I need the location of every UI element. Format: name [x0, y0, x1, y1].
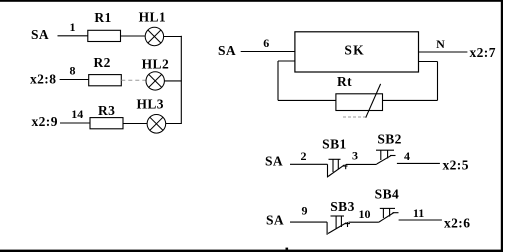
- wire Rt to right vertical: [383, 99, 438, 101]
- border bottom: [0, 250, 503, 252]
- svg-text:10: 10: [359, 207, 371, 221]
- svg-text:SK: SK: [344, 43, 364, 58]
- svg-text:HL2: HL2: [142, 57, 169, 72]
- lamp HL3: [147, 115, 166, 134]
- lamp HL2: [146, 72, 164, 90]
- svg-text:SA: SA: [218, 43, 236, 58]
- svg-text:SB1: SB1: [322, 137, 346, 152]
- svg-text:SB2: SB2: [377, 132, 401, 147]
- svg-text:x2:7: x2:7: [470, 45, 496, 60]
- svg-text:1: 1: [70, 20, 76, 34]
- svg-text:N: N: [436, 37, 445, 51]
- wire stub left of Rt branch: [278, 60, 295, 62]
- wire left vertical of Rt branch: [277, 61, 279, 100]
- svg-text:SA: SA: [266, 213, 284, 228]
- wire R3 to HL3: [123, 123, 147, 125]
- svg-text:R2: R2: [94, 55, 111, 70]
- wire HL2 to bus: [164, 80, 181, 82]
- svg-text:R1: R1: [94, 10, 111, 25]
- svg-text:x2:6: x2:6: [444, 215, 470, 230]
- resistor R2: [89, 75, 122, 86]
- wire stub right of Rt branch: [419, 61, 438, 63]
- svg-text:2: 2: [301, 149, 307, 163]
- svg-text:9: 9: [302, 204, 308, 218]
- wire x2:8 to R2: [60, 79, 89, 81]
- wire R2 to HL2 (dashed): [121, 79, 146, 81]
- wire SA to R1: [58, 35, 88, 37]
- svg-text:x2:9: x2:9: [32, 114, 58, 129]
- pushbutton SB4: [379, 208, 399, 222]
- svg-text:x2:5: x2:5: [443, 157, 469, 172]
- wire right vertical of Rt branch: [437, 62, 439, 101]
- wire HL1 to bus: [164, 36, 182, 38]
- wire SA to SK: [241, 51, 295, 53]
- pushbutton SB2: [376, 150, 396, 164]
- resistor R1: [88, 30, 121, 41]
- svg-text:SA: SA: [265, 153, 283, 168]
- wire SA to SB3: [290, 221, 327, 223]
- pushbutton SB3: [327, 216, 350, 235]
- svg-text:14: 14: [71, 107, 83, 121]
- svg-text:HL1: HL1: [139, 10, 166, 25]
- wire SB2 to x2:5: [397, 162, 440, 164]
- border right: [501, 0, 503, 252]
- wire SB4 to x2:6: [399, 219, 442, 221]
- Rt diagonal stroke: [366, 84, 381, 118]
- wire SA to SB1: [290, 163, 328, 165]
- bus (right vertical): [180, 36, 182, 124]
- lamp HL1: [145, 27, 163, 45]
- svg-text:3: 3: [352, 148, 358, 162]
- svg-text:11: 11: [413, 206, 424, 220]
- wire SB3 to SB4: [349, 221, 379, 223]
- svg-text:x2:8: x2:8: [30, 71, 56, 86]
- svg-text:SA: SA: [31, 27, 49, 42]
- resistor R3: [90, 118, 123, 129]
- box SK: [295, 32, 419, 72]
- junction tick on bottom border: [286, 248, 289, 250]
- svg-text:R3: R3: [98, 103, 115, 118]
- svg-text:HL3: HL3: [136, 97, 163, 112]
- svg-text:SB4: SB4: [375, 187, 399, 202]
- svg-text:8: 8: [70, 64, 76, 78]
- resistor Rt: [336, 94, 383, 111]
- pushbutton SB1: [328, 159, 348, 177]
- wire SK to x2:7: [419, 51, 468, 53]
- Rt foot (dashed): [343, 116, 366, 118]
- wire SB1 to SB2: [346, 163, 377, 165]
- svg-text:4: 4: [404, 149, 410, 163]
- svg-text:Rt: Rt: [337, 74, 352, 89]
- wire HL3 to bus: [166, 123, 182, 125]
- wire bottom left to Rt: [278, 99, 336, 101]
- wire x2:9 to R3: [60, 122, 90, 124]
- svg-text:6: 6: [263, 36, 269, 50]
- border top: [0, 0, 503, 2]
- svg-text:SB3: SB3: [330, 199, 354, 214]
- wire R1 to HL1: [121, 35, 146, 37]
